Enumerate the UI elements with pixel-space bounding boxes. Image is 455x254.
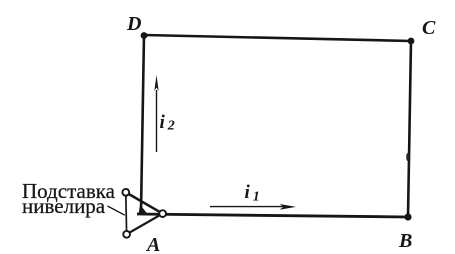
wire bottom A-B — [137, 214, 408, 217]
footscrew circle top-left — [122, 189, 129, 196]
level stand (tribrach) triangle — [126, 192, 163, 234]
svg-text:A: A — [145, 234, 160, 254]
svg-text:D: D — [126, 13, 141, 35]
wire right C-B — [408, 41, 411, 217]
svg-text:B: B — [398, 230, 412, 252]
filled wedge at node A junction — [139, 205, 149, 215]
svg-text:i1: i1 — [245, 182, 260, 205]
leader line from label to stand — [108, 206, 125, 215]
wire left D-A — [141, 35, 144, 212]
scan blemish on right wire — [406, 153, 409, 161]
svg-text:нивелира: нивелира — [22, 194, 106, 218]
svg-text:C: C — [422, 17, 436, 39]
svg-text:i2: i2 — [160, 112, 175, 134]
wire top D-C — [144, 35, 411, 41]
node C — [408, 38, 415, 45]
current arrow i2 — [154, 75, 158, 152]
current arrow i1 — [210, 204, 296, 210]
node D — [141, 32, 148, 39]
node B — [404, 213, 411, 220]
footscrew circle bottom-left — [123, 231, 130, 238]
footscrew circle right — [159, 210, 166, 217]
